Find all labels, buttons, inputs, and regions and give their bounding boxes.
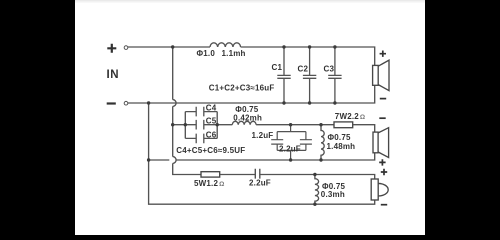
speaker SP1 (woofer): [373, 60, 389, 90]
svg-text:C2: C2: [298, 64, 309, 73]
svg-text:C3: C3: [324, 64, 335, 73]
junction: cap bank right bus: [216, 123, 219, 126]
speaker SP3 plus sign: [381, 169, 387, 175]
wire: mid-section return rail: [149, 153, 375, 160]
junction: plus rail to feed wire: [171, 45, 174, 48]
svg-text:C1: C1: [272, 63, 283, 72]
vertical feed wire from - rail: [149, 103, 375, 204]
capacitor bank right bus: [216, 112, 218, 139]
wire: top-section return rail (minus rail): [128, 85, 375, 103]
speaker SP1 minus sign: [380, 98, 386, 100]
svg-text:C5: C5: [206, 117, 217, 126]
wire: C7 to tweeter rail: [260, 175, 375, 180]
junction: L3 top: [319, 123, 322, 126]
speaker SP2 plus sign: [379, 159, 385, 165]
capacitor C3: [328, 47, 341, 103]
svg-text:5W1.2Ω: 5W1.2Ω: [194, 179, 225, 188]
speaker SP2 (midrange): [373, 128, 389, 158]
junction: shunt caps top: [289, 123, 292, 126]
svg-text:1.48mh: 1.48mh: [327, 142, 356, 151]
speaker SP3 (tweeter): [371, 179, 388, 200]
vertical feed wire from + rail (with hops): [173, 47, 201, 175]
inductor L3 1.48mh (shunt): [321, 125, 324, 160]
wire: L1 to speaker SP1 top: [241, 47, 375, 65]
svg-text:0.3mh: 0.3mh: [321, 190, 345, 199]
wire: + input to inductor L1: [128, 46, 210, 48]
svg-text:C1+C2+C3≈16uF: C1+C2+C3≈16uF: [209, 84, 275, 93]
svg-text:7W2.2Ω: 7W2.2Ω: [335, 112, 366, 121]
shunt capacitor pair 1.2uF + 2.2uF: [271, 125, 312, 160]
svg-text:C4+C5+C6≈9.5UF: C4+C5+C6≈9.5UF: [176, 146, 245, 155]
svg-text:2.2uF: 2.2uF: [249, 179, 271, 188]
input minus terminal: [107, 102, 116, 104]
capacitor C7 2.2uF: [255, 169, 259, 179]
capacitor C6: [185, 134, 217, 144]
speaker SP2 minus sign: [379, 117, 385, 119]
junction: L4 top: [313, 173, 316, 176]
capacitor C4: [185, 107, 217, 117]
capacitor C5: [185, 120, 217, 130]
wire: R1 to speaker SP2: [353, 125, 375, 132]
wire: + feed to C4/C5/C6 bank: [173, 124, 186, 126]
junction: C1 bottom: [282, 101, 285, 104]
svg-text:C4: C4: [206, 104, 217, 113]
svg-text:2.2uF: 2.2uF: [279, 144, 301, 153]
capacitor C1: [277, 47, 290, 103]
svg-text:1.2uF: 1.2uF: [252, 131, 274, 140]
resistor R2 5W1.2: [201, 172, 220, 177]
inductor L4 0.3mh (shunt): [315, 175, 319, 205]
junction: C1 top: [282, 45, 285, 48]
junction: C2 top: [308, 45, 311, 48]
speaker SP1 plus sign: [380, 51, 386, 57]
junction: L3 bottom: [319, 158, 322, 161]
inductor L1 1.1mh: [210, 43, 241, 47]
inductor L2 0.42mh: [232, 121, 256, 124]
svg-text:1.1mh: 1.1mh: [222, 49, 246, 58]
wire: L2 to resistor R1: [256, 124, 334, 126]
input plus terminal circle: [124, 46, 128, 50]
wire: R2 to capacitor C7: [220, 174, 255, 176]
capacitor bank C4 C5 C6 left bus: [184, 112, 186, 139]
resistor R1 7W2.2: [334, 122, 353, 128]
junction: shunt caps bottom: [289, 158, 292, 161]
junction: cap bank left bus: [184, 123, 187, 126]
svg-text:Φ1.0: Φ1.0: [197, 49, 216, 58]
input plus terminal: [107, 44, 116, 53]
junction: C3 top: [333, 45, 336, 48]
junction: minus rail to return feed: [147, 101, 150, 104]
junction: L4 bottom: [313, 203, 316, 206]
input minus terminal circle: [124, 101, 128, 105]
svg-text:0.42mh: 0.42mh: [233, 114, 262, 123]
svg-text:C6: C6: [206, 130, 217, 139]
junction: return feed to mid return rail: [147, 158, 150, 161]
capacitor C2: [303, 47, 316, 103]
junction: feed to mid branch: [171, 123, 174, 126]
junction: C3 bottom: [333, 101, 336, 104]
speaker SP3 minus sign: [381, 204, 387, 206]
wire: bank to inductor L2: [217, 124, 232, 126]
svg-text:Φ0.75: Φ0.75: [328, 133, 351, 142]
white schematic panel: [75, 0, 425, 235]
junction: C2 bottom: [308, 101, 311, 104]
svg-text:IN: IN: [107, 69, 120, 81]
